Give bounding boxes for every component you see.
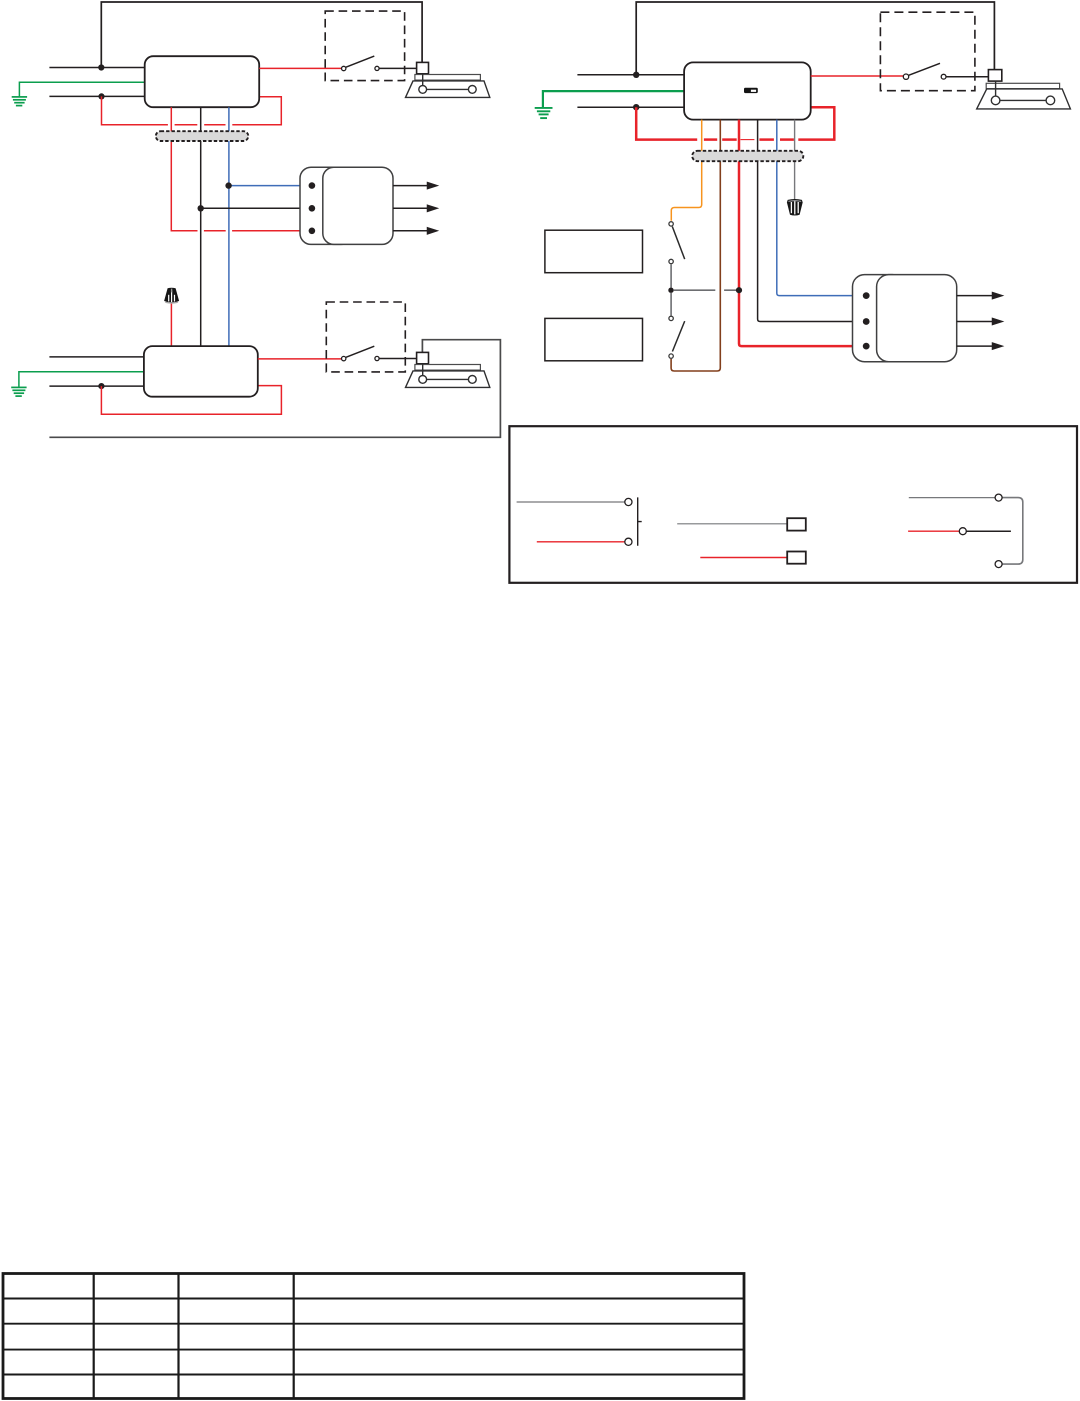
legend box — [509, 426, 1077, 583]
pin module1 black — [309, 205, 316, 212]
arrow module2 out3 — [957, 343, 1002, 349]
wire unit accessory input — [577, 106, 684, 108]
arrow module2 out2 — [957, 319, 1002, 325]
lamp socket block J2 — [417, 352, 429, 363]
node grey junction — [668, 288, 673, 293]
wire brown down from unit — [671, 120, 720, 371]
ground chassis ground G3 — [535, 108, 553, 118]
wire battery-constant top loop 2 — [636, 2, 994, 75]
wire red remote loop unit thick — [636, 107, 834, 139]
legend item2 plug1 — [787, 518, 806, 530]
legend item3 grey wire — [909, 497, 995, 499]
wire grey link upper — [670, 264, 672, 287]
switch SW3 — [903, 63, 989, 79]
table row lines — [3, 1299, 744, 1375]
legend item1 grey terminal — [625, 498, 632, 505]
switch SW4 upper — [669, 222, 685, 264]
LEGEND — [509, 426, 1077, 583]
wire red switch feed amp1 — [259, 67, 341, 69]
legend item3 black wire — [966, 530, 1011, 532]
legend item2 red wire — [700, 557, 787, 559]
pin module2 blue — [863, 292, 870, 299]
wire unit power input — [577, 74, 684, 76]
table outer border — [3, 1274, 744, 1399]
wire red switch feed amp2 — [258, 358, 341, 360]
amplifier A1 — [145, 56, 260, 107]
wire nut W1 — [164, 288, 179, 304]
pin module1 blue — [309, 182, 316, 189]
switch box SW1 dashed — [325, 11, 404, 81]
lamp socket block J1 — [417, 62, 429, 73]
legend item3 red wire — [908, 530, 959, 532]
node red tap junction — [736, 287, 742, 293]
node amp1 power junction — [98, 64, 104, 70]
switch box SW2 dashed — [326, 302, 405, 372]
wire amp1 ground green — [19, 82, 144, 96]
grommet firewall pass-through 1 — [156, 131, 249, 141]
legend item2 grey wire — [677, 523, 787, 525]
wire black to module2 — [758, 120, 863, 322]
label box B2 — [545, 318, 643, 360]
wire grey link lower — [670, 293, 672, 316]
wire nut W2 — [787, 199, 803, 216]
wire blue to module2 — [777, 120, 863, 296]
switch box SW3 dashed — [880, 12, 975, 91]
DIAGRAM2 — [535, 2, 1071, 371]
DIAGRAM1 — [11, 2, 500, 437]
wire amp1 accessory input — [49, 95, 144, 97]
arrow module2 out1 — [957, 293, 1002, 299]
grommet firewall pass-through 2 — [692, 151, 803, 161]
node unit power junction — [633, 72, 639, 78]
wire red thick to module2 — [739, 120, 863, 347]
speaker module M2 — [853, 275, 957, 362]
wire grey tap to red — [674, 289, 736, 291]
icon slide switch on unit — [744, 88, 758, 93]
ground chassis ground G1 — [12, 97, 27, 106]
wire amp2 ground green — [19, 372, 144, 387]
legend item1 grey wire — [517, 501, 625, 503]
node blue tee — [225, 182, 231, 188]
wire blue audio down from amp1 — [228, 107, 230, 346]
wire grey capped — [794, 120, 796, 200]
TABLE — [3, 1274, 744, 1399]
wire red remote loop amp1 — [102, 96, 282, 124]
wire battery-constant top loop — [101, 2, 422, 68]
wire nut W1 red stub — [170, 301, 172, 347]
node black tee — [198, 205, 204, 211]
wire blue branch to module1 — [229, 185, 309, 187]
switch SW5 lower — [669, 316, 685, 358]
speaker module M1 — [300, 167, 393, 244]
lamp fixture L3 — [977, 81, 1071, 109]
legend item1 red terminal — [625, 538, 632, 545]
wire amp2 power input — [49, 356, 143, 358]
wire unit ground green — [543, 91, 684, 107]
wire enclosure return loop — [49, 340, 500, 438]
switch SW1 — [342, 56, 418, 71]
ground chassis ground G2 — [11, 387, 26, 396]
pin module2 black — [863, 318, 870, 325]
node unit accessory junction — [633, 104, 639, 110]
wire red thin bridge — [741, 139, 755, 141]
legend item2 plug2 — [787, 552, 806, 564]
legend item1 connector bar — [638, 497, 642, 545]
arrow module1 out3 — [393, 228, 437, 234]
legend item3 terminal bottom — [995, 561, 1002, 568]
wire red switch feed unit — [811, 75, 903, 77]
arrow module1 out2 — [393, 205, 437, 211]
wire black audio down from amp1 — [200, 107, 202, 346]
amplifier A2 — [144, 346, 258, 397]
legend item3 terminal top — [995, 494, 1002, 501]
legend item3 bracket — [1002, 498, 1023, 564]
wire amp1 power input — [49, 67, 144, 69]
table column lines — [94, 1274, 294, 1399]
arrow module1 out1 — [393, 183, 437, 189]
wire red turn-on down from amp1 — [171, 107, 308, 231]
head unit U1 — [684, 62, 811, 119]
lamp fixture L1 — [406, 74, 490, 98]
pin module1 red — [309, 228, 316, 235]
switch SW2 — [342, 346, 418, 361]
node amp2 accessory junction — [98, 383, 104, 389]
legend item1 red wire — [537, 541, 625, 543]
lamp fixture L2 — [406, 364, 490, 388]
legend item3 mid terminal — [959, 528, 966, 535]
wire amp2 accessory input — [49, 385, 143, 387]
label box B1 — [545, 230, 643, 273]
pin module2 red — [863, 343, 870, 350]
wire orange down from unit — [671, 120, 701, 221]
wire red remote loop amp2 — [101, 386, 281, 415]
wire black branch to module1 — [201, 207, 309, 209]
lamp socket block J3 — [988, 70, 1001, 82]
node amp1 accessory junction — [98, 93, 104, 99]
